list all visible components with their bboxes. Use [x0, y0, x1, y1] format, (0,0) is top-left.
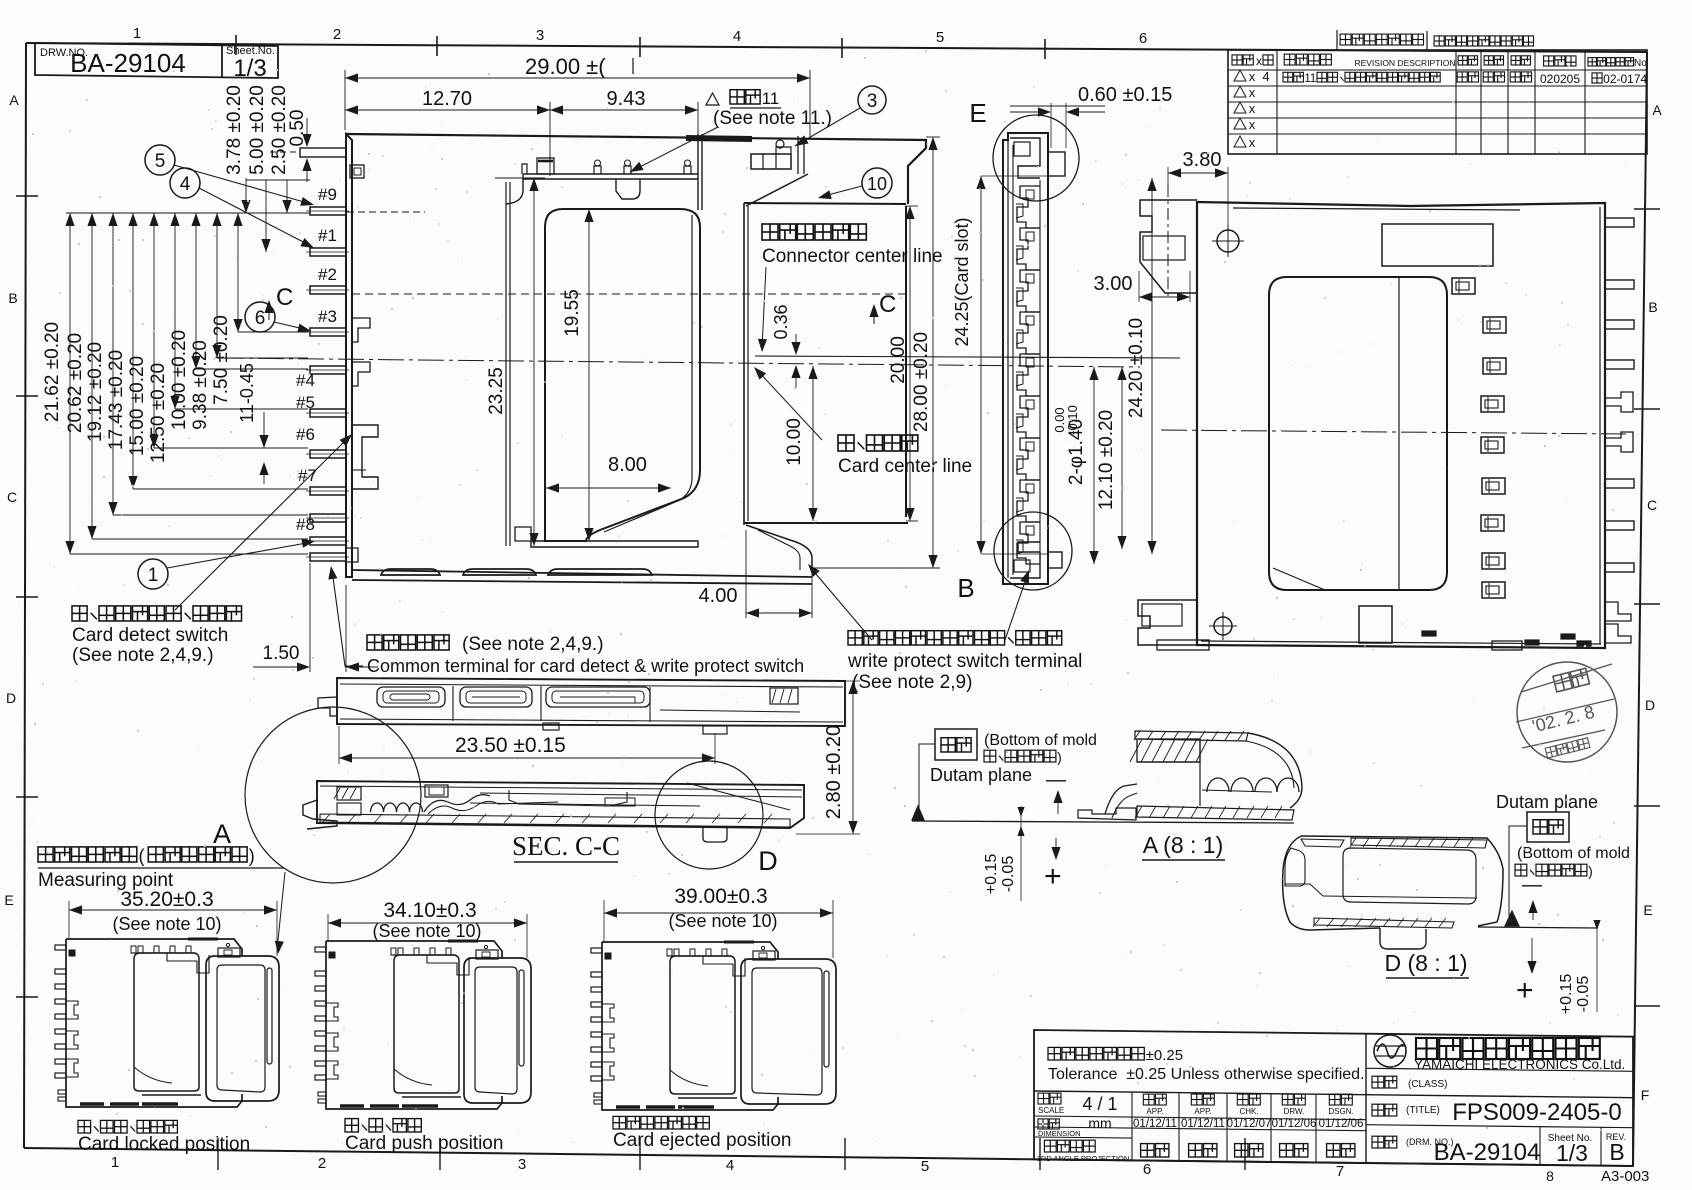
detail circle B	[994, 512, 1072, 590]
card push view top latch marks	[391, 954, 456, 956]
svg-text:#9: #9	[318, 185, 337, 204]
svg-text:3: 3	[518, 1156, 526, 1173]
svg-text:C: C	[879, 291, 896, 318]
svg-text:34.10±0.3: 34.10±0.3	[383, 899, 476, 922]
svg-text:DRW.: DRW.	[1284, 1107, 1305, 1116]
svg-text:35.20±0.3: 35.20±0.3	[120, 888, 213, 911]
zone ticks top	[235, 35, 237, 55]
svg-text:4: 4	[1262, 69, 1269, 84]
detail D top hatch	[1351, 838, 1487, 848]
svg-text:5: 5	[155, 151, 166, 172]
svg-text:Card ejected position: Card ejected position	[613, 1130, 792, 1151]
svg-text:020205: 020205	[1540, 72, 1580, 86]
fan dimension 12.50	[174, 213, 176, 409]
revision table header	[1232, 55, 1242, 65]
upper strip dividers	[452, 686, 454, 721]
svg-text:1: 1	[148, 565, 159, 586]
svg-text:20.00: 20.00	[888, 336, 909, 384]
svg-text:21.62 ±0.20: 21.62 ±0.20	[42, 322, 63, 422]
card push view body outline	[326, 941, 502, 958]
svg-text:3.78 ±0.20: 3.78 ±0.20	[224, 85, 245, 175]
svg-text:C: C	[7, 489, 17, 505]
svg-text:C: C	[276, 284, 293, 311]
inner contact hooks	[352, 318, 370, 342]
svg-text:2.80 ±0.20: 2.80 ±0.20	[823, 725, 845, 819]
svg-text:—: —	[1046, 769, 1066, 791]
svg-text:19.55: 19.55	[562, 289, 583, 337]
svg-text:+0.15: +0.15	[1558, 974, 1575, 1015]
detail A hatch block	[1137, 739, 1200, 762]
svg-text:2: 2	[333, 26, 341, 43]
svg-text:3.80: 3.80	[1183, 149, 1222, 171]
card push view card latch tabs	[476, 950, 498, 959]
svg-text:#1: #1	[318, 226, 337, 245]
svg-text:7.50 ±0.20: 7.50 ±0.20	[211, 315, 232, 405]
svg-text:Card locked position: Card locked position	[78, 1134, 250, 1155]
svg-text:28.00 ±0.20: 28.00 ±0.20	[911, 332, 932, 432]
top left mount block	[1140, 200, 1197, 293]
fan dimension 9.38	[216, 213, 218, 358]
detail D inner shapes	[1285, 848, 1305, 886]
top edge thick bar	[686, 138, 752, 139]
svg-text:(See note 11.): (See note 11.)	[713, 108, 832, 129]
zone ticks right	[1634, 208, 1660, 210]
svg-text:1: 1	[111, 1154, 119, 1171]
balloon 6	[245, 302, 275, 332]
svg-text:0.36: 0.36	[771, 304, 791, 339]
svg-text:01/12/11: 01/12/11	[1133, 1118, 1177, 1130]
svg-text:8.00: 8.00	[608, 454, 647, 476]
right pins	[1605, 218, 1634, 227]
svg-text:A: A	[9, 92, 19, 108]
svg-text:15.00 ±0.20: 15.00 ±0.20	[127, 356, 148, 456]
svg-text:12.70: 12.70	[422, 88, 472, 110]
svg-text:Connector center line: Connector center line	[762, 246, 943, 267]
upper strip contact slot 1	[377, 687, 445, 707]
side view top block E	[1010, 138, 1040, 178]
svg-text:BA-29104: BA-29104	[1434, 1139, 1541, 1166]
svg-text:D: D	[1645, 697, 1655, 713]
svg-text:x: x	[1249, 101, 1256, 116]
fan dimension 10.00	[195, 213, 197, 369]
svg-text:E: E	[1643, 902, 1652, 918]
card push view inner window	[394, 955, 459, 1093]
yamaichi logo	[1374, 1035, 1406, 1067]
detail circle A	[245, 707, 421, 883]
balloon 3	[858, 86, 886, 114]
side view inner walls	[1012, 145, 1014, 575]
upper strip contact slot 2	[460, 687, 532, 707]
section C-C upper strip	[337, 678, 845, 726]
tolerance note	[1048, 1047, 1061, 1060]
svg-text:12.10 ±0.20: 12.10 ±0.20	[1096, 410, 1117, 510]
svg-text:01/12/06: 01/12/06	[1319, 1118, 1364, 1130]
svg-text:4: 4	[726, 1157, 734, 1174]
detail A datum plane line	[912, 821, 1294, 823]
detail D bottom band	[1314, 918, 1454, 928]
svg-text:F: F	[1641, 1087, 1650, 1103]
title row	[1372, 1104, 1384, 1116]
svg-text:3RD ANGLE PROJECTION: 3RD ANGLE PROJECTION	[1037, 1154, 1130, 1163]
lower strip spring coil	[371, 803, 384, 812]
right region bottom tab	[746, 525, 812, 572]
svg-text:0.60 ±0.15: 0.60 ±0.15	[1078, 84, 1172, 106]
svg-text:): )	[249, 846, 255, 866]
lower strip block	[425, 785, 448, 797]
svg-text:-0.05: -0.05	[1000, 856, 1017, 893]
svg-text:x: x	[1249, 69, 1256, 84]
svg-text:+: +	[1516, 974, 1534, 1007]
company name	[1416, 1038, 1437, 1059]
svg-text:20.62 ±0.20: 20.62 ±0.20	[65, 333, 86, 433]
lower strip bottom hatch bar	[320, 814, 790, 827]
bottom edge marks	[1422, 631, 1436, 636]
svg-text:-0.05: -0.05	[1575, 976, 1592, 1013]
svg-text:(See note 10): (See note 10)	[112, 914, 221, 934]
balloon 5	[145, 145, 175, 175]
pins left side	[310, 207, 346, 215]
fan dimension 15.00	[153, 213, 155, 448]
cavity window	[545, 209, 700, 541]
upper strip contact slot 3	[546, 687, 650, 707]
revision table	[1340, 34, 1351, 45]
card push view left edge steps	[326, 1003, 338, 1021]
lower strip hatch block	[337, 787, 361, 800]
svg-text:3.00: 3.00	[1094, 273, 1133, 295]
card ejected view card	[741, 959, 836, 1104]
measuring point label	[38, 847, 53, 862]
svg-text:APP.: APP.	[1146, 1107, 1163, 1116]
svg-text:6: 6	[1143, 1161, 1151, 1178]
cavity right wall to top edge	[697, 134, 699, 210]
svg-text:B: B	[1648, 299, 1657, 315]
svg-text:11: 11	[762, 89, 780, 108]
svg-text:Dutam plane: Dutam plane	[930, 765, 1032, 785]
mount hole cross top	[1217, 230, 1239, 252]
zone ticks bottom	[217, 1138, 219, 1170]
svg-text:C: C	[1647, 497, 1657, 513]
bottom eject tab	[1359, 606, 1392, 643]
write protect block top right	[751, 154, 791, 169]
detail A bottom band	[1137, 806, 1294, 820]
right card region	[744, 203, 908, 523]
svg-text:3: 3	[536, 27, 544, 44]
card push view bottom feet	[340, 1104, 364, 1108]
lower strip left foot	[303, 800, 337, 829]
main view top-left pin 0.50	[300, 148, 346, 157]
svg-text:D (8 : 1): D (8 : 1)	[1384, 950, 1467, 976]
revision rows delta marks	[1234, 70, 1246, 81]
svg-text:A: A	[1652, 102, 1662, 118]
card locked view left pins	[55, 945, 66, 950]
latch detail mid-top	[616, 179, 640, 199]
svg-text:A (8 : 1): A (8 : 1)	[1143, 832, 1224, 858]
card locked view top latch marks	[131, 952, 196, 954]
svg-text:4.00: 4.00	[699, 585, 738, 607]
svg-text:#2: #2	[318, 265, 337, 284]
lower strip rails	[480, 793, 802, 797]
svg-text:#4: #4	[296, 371, 315, 390]
class row	[1372, 1076, 1384, 1088]
lower strip tray	[509, 790, 627, 806]
svg-text:mm: mm	[1088, 1115, 1111, 1131]
balloon 1	[138, 559, 168, 589]
left dimension fan reference line	[66, 212, 310, 214]
svg-text:6: 6	[255, 308, 266, 329]
section C-C lower strip	[317, 781, 804, 828]
side view bottom block B	[1010, 542, 1040, 578]
svg-text:(CLASS): (CLASS)	[1408, 1079, 1447, 1090]
side view contacts	[1017, 186, 1040, 228]
svg-text:—: —	[1522, 874, 1542, 896]
svg-text:YAMAICHI ELECTRONICS Co.Ltd.: YAMAICHI ELECTRONICS Co.Ltd.	[1414, 1057, 1625, 1072]
datum box A	[935, 729, 977, 760]
svg-text:REVISION DESCRIPTION: REVISION DESCRIPTION	[1354, 58, 1455, 68]
svg-text:x: x	[1249, 135, 1256, 150]
scale unit rows	[1038, 1093, 1049, 1104]
svg-text:D: D	[758, 846, 778, 876]
svg-text:x: x	[1249, 85, 1256, 100]
card center label	[838, 435, 854, 451]
svg-text:6: 6	[1139, 30, 1147, 47]
svg-text:x: x	[1249, 117, 1256, 132]
svg-text:(See note 2,4,9.): (See note 2,4,9.)	[462, 634, 604, 655]
svg-text:1/3: 1/3	[233, 55, 266, 82]
main front view outline	[346, 134, 926, 204]
card ejected view card latch tabs	[753, 951, 775, 960]
side view body	[1003, 133, 1048, 584]
write protect switch label	[848, 631, 862, 645]
right elbow pins	[1605, 392, 1633, 412]
svg-text:Card detect switch: Card detect switch	[72, 625, 228, 646]
svg-text:write protect switch terminal: write protect switch terminal	[847, 651, 1082, 672]
svg-text:E: E	[969, 98, 986, 128]
svg-text:5.00 ±0.20: 5.00 ±0.20	[247, 85, 268, 175]
card locked view card latch tabs	[218, 948, 240, 957]
svg-text:FPS009-2405-0: FPS009-2405-0	[1452, 1099, 1621, 1126]
connector center label	[762, 224, 778, 240]
fan dimension 7.50	[237, 213, 239, 332]
pin #9 dashed line	[347, 211, 425, 213]
side view top tab	[1048, 152, 1065, 176]
common terminal label	[367, 635, 382, 650]
zone ticks left	[16, 195, 38, 197]
lower strip latch curve	[424, 795, 490, 812]
mark square symbol	[350, 165, 364, 178]
svg-text:(Bottom of mold: (Bottom of mold	[984, 732, 1097, 749]
drawing number box	[35, 43, 278, 78]
rail prongs and latch caps	[522, 164, 527, 174]
svg-text:39.00±0.3: 39.00±0.3	[674, 885, 767, 908]
svg-text:DIMENSION: DIMENSION	[1038, 1129, 1081, 1138]
svg-text:11: 11	[1304, 73, 1316, 85]
svg-text:1.50: 1.50	[263, 643, 300, 664]
svg-text:5: 5	[936, 29, 944, 46]
card ejected view inner window	[670, 956, 735, 1094]
detail D body	[1301, 836, 1503, 926]
card locked view inner window	[134, 953, 199, 1091]
svg-text:1: 1	[133, 25, 141, 42]
svg-text:23.25: 23.25	[486, 367, 507, 415]
svg-text:19.12 ±0.20: 19.12 ±0.20	[85, 342, 106, 442]
upper strip right details	[660, 710, 800, 712]
detail A tolerance	[1020, 806, 1022, 901]
drawing number row	[1372, 1136, 1384, 1148]
detail D bottom tab	[1380, 928, 1426, 949]
card locked view card	[206, 956, 279, 1101]
card push view left pins	[315, 947, 326, 952]
svg-text:10.00 ±0.20: 10.00 ±0.20	[169, 330, 190, 430]
main view inner top rail	[523, 173, 698, 175]
upper strip tabs	[543, 723, 559, 730]
right bottom elbow feet	[1605, 602, 1631, 621]
svg-text:Card push position: Card push position	[345, 1133, 503, 1154]
svg-text:CHK.: CHK.	[1239, 1107, 1258, 1116]
svg-text:10: 10	[867, 174, 887, 194]
svg-text:8: 8	[1546, 1168, 1554, 1184]
bottom edge tabs	[1157, 640, 1209, 650]
svg-text:): )	[1588, 863, 1593, 879]
card ejected view body outline	[602, 942, 778, 959]
svg-text:7: 7	[1336, 1163, 1344, 1180]
svg-text:D: D	[6, 690, 16, 706]
svg-text:A: A	[213, 819, 231, 849]
svg-text:+: +	[1044, 860, 1062, 893]
svg-text:DSGN.: DSGN.	[1328, 1107, 1353, 1116]
fan dimension 17.43	[132, 213, 134, 489]
big right view outline	[1197, 202, 1605, 648]
detect pin elbow	[346, 548, 358, 562]
svg-text:Common terminal for card detec: Common terminal for card detect & write …	[367, 656, 804, 676]
fan dimension 19.12	[112, 213, 114, 515]
card ejected view left edge steps	[602, 1004, 614, 1022]
svg-text:Dutam plane: Dutam plane	[1496, 792, 1598, 812]
top right diagonal edges	[908, 148, 926, 166]
svg-text:1/3: 1/3	[1556, 1140, 1588, 1166]
svg-text:0.50: 0.50	[287, 110, 308, 147]
lower strip bottom tab	[703, 828, 727, 842]
main view bottom feet	[381, 569, 440, 575]
svg-text:±0.25: ±0.25	[1146, 1047, 1183, 1064]
sheet border frame	[26, 43, 1647, 52]
svg-text:29.00 ±(: 29.00 ±(	[525, 54, 606, 79]
svg-text:No: No	[1634, 58, 1647, 69]
svg-text:3: 3	[867, 91, 878, 112]
balloon 10	[862, 168, 892, 198]
note 11 label	[706, 93, 719, 105]
svg-text:10.00: 10.00	[784, 418, 805, 466]
fan dimension 21.62	[69, 213, 71, 554]
fan dimension 20.62	[91, 213, 93, 539]
detail A left foot	[1078, 808, 1136, 820]
card locked view body outline	[66, 939, 242, 956]
svg-text:9.43: 9.43	[607, 88, 646, 110]
card push view card	[464, 958, 531, 1103]
detail A springs	[1202, 790, 1272, 792]
revision row 1 description	[1283, 72, 1293, 82]
detail D datum	[1505, 911, 1519, 926]
svg-text:E: E	[4, 892, 13, 908]
svg-text:01/12/06: 01/12/06	[1272, 1118, 1317, 1130]
card locked view left edge steps	[66, 1001, 78, 1019]
issue stamp	[1517, 662, 1617, 762]
card locked view bottom feet	[80, 1102, 104, 1106]
svg-text:5: 5	[921, 1158, 929, 1175]
mount hole cross bottom	[1214, 617, 1232, 635]
big card window	[1269, 277, 1447, 590]
svg-text:4: 4	[180, 174, 191, 195]
svg-text:#6: #6	[296, 425, 315, 444]
svg-text:SEC. C-C: SEC. C-C	[512, 831, 620, 861]
detail circle E	[993, 115, 1079, 201]
svg-text:#7: #7	[298, 466, 317, 485]
card ejected view bottom feet	[616, 1105, 640, 1109]
svg-text:02-0174: 02-0174	[1603, 72, 1647, 86]
bottom left mount block	[1138, 600, 1197, 645]
center line through big view	[1161, 430, 1626, 434]
svg-text:(TITLE): (TITLE)	[1406, 1105, 1440, 1116]
card center line	[218, 358, 1140, 367]
card ejected view left pins	[591, 948, 602, 953]
detail circle D	[655, 761, 763, 869]
svg-text:17.43 ±0.20: 17.43 ±0.20	[106, 350, 127, 450]
svg-text:BA-29104: BA-29104	[70, 48, 186, 78]
svg-text:#3: #3	[318, 307, 337, 326]
svg-text:A3-003: A3-003	[1601, 1168, 1649, 1185]
svg-text:(See note 2,9): (See note 2,9)	[852, 672, 972, 693]
card detect switch label	[72, 606, 87, 621]
svg-text:+0.15: +0.15	[983, 854, 1000, 895]
detail A nose curve	[1248, 733, 1302, 808]
svg-text:-0.10: -0.10	[1065, 405, 1080, 435]
svg-text:(See note 10): (See note 10)	[372, 921, 481, 941]
svg-text:x: x	[1256, 54, 1262, 68]
label window	[1382, 224, 1493, 266]
cavity left wall lines	[505, 182, 507, 546]
svg-text:Tolerance ±0.25 Unless otherw: Tolerance ±0.25 Unless otherwise specifi…	[1048, 1066, 1365, 1083]
svg-text:B: B	[957, 573, 974, 603]
card ejected view top latch marks	[667, 955, 732, 957]
svg-text:(: (	[138, 846, 144, 866]
svg-text:9.38 ±0.20: 9.38 ±0.20	[190, 340, 211, 430]
svg-text:B: B	[8, 290, 17, 306]
cavity bottom bar	[531, 541, 698, 547]
svg-text:01/12/11: 01/12/11	[1181, 1118, 1225, 1130]
main view bottom edge	[352, 570, 812, 584]
svg-text:11-0.45: 11-0.45	[237, 363, 257, 423]
svg-text:B: B	[1609, 1139, 1624, 1165]
section C markers	[352, 293, 906, 295]
svg-text:2: 2	[318, 1155, 326, 1172]
svg-text:4 / 1: 4 / 1	[1082, 1094, 1117, 1114]
detail A body top shell	[1135, 731, 1248, 741]
svg-text:SCALE: SCALE	[1038, 1106, 1064, 1115]
balloon 4	[170, 168, 200, 198]
svg-text:Card center line: Card center line	[838, 456, 972, 477]
svg-text:#8: #8	[296, 515, 315, 534]
svg-text:12.50 ±0.20: 12.50 ±0.20	[148, 363, 169, 463]
svg-text:23.50 ±0.15: 23.50 ±0.15	[455, 734, 566, 757]
svg-text:01/12/07: 01/12/07	[1227, 1118, 1272, 1130]
svg-text:(See note 2,4,9.): (See note 2,4,9.)	[72, 645, 214, 666]
title block	[1034, 1030, 1633, 1166]
svg-text:(Bottom of mold: (Bottom of mold	[1517, 845, 1630, 862]
svg-text:): )	[1057, 749, 1062, 765]
svg-text:24.20 ±0.10: 24.20 ±0.10	[1126, 318, 1147, 418]
contact windows	[1452, 278, 1475, 294]
svg-text:(See note 10): (See note 10)	[668, 911, 777, 931]
svg-text:4: 4	[733, 28, 741, 45]
